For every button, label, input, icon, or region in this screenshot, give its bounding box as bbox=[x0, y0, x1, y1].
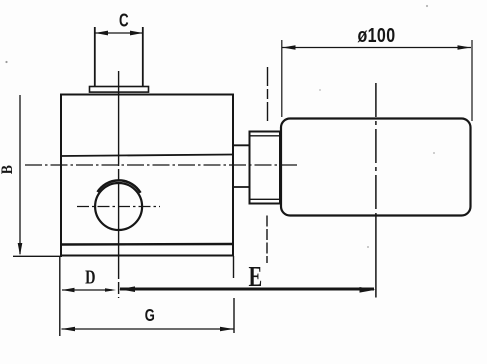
thread arc on hole bbox=[98, 180, 141, 192]
flange block bbox=[250, 132, 281, 204]
boss base plate bbox=[90, 87, 149, 93]
connector neck bbox=[233, 145, 250, 187]
hole vertical centerline bbox=[118, 71, 120, 298]
dimension dia100 line bbox=[282, 47, 471, 49]
dimension D line bbox=[62, 289, 112, 291]
main horizontal centerline bbox=[25, 164, 298, 166]
svg-text:G: G bbox=[145, 306, 155, 326]
svg-text:C: C bbox=[119, 10, 129, 31]
hole horizontal centerline bbox=[77, 206, 160, 208]
face extension line upper bbox=[267, 67, 269, 121]
face extension line lower bbox=[266, 216, 268, 264]
body upper internal line bbox=[61, 155, 233, 157]
cylinder vertical centerline bbox=[375, 83, 377, 215]
dia100 extension lines bbox=[281, 40, 283, 117]
svg-text:ø100: ø100 bbox=[357, 24, 395, 46]
B bottom extension line bbox=[13, 255, 62, 257]
dimension B line bbox=[19, 95, 21, 254]
coil cylinder bbox=[281, 119, 471, 216]
G left extension line bbox=[59, 257, 61, 337]
svg-text:E: E bbox=[249, 262, 263, 293]
G right extension line bbox=[233, 256, 235, 278]
svg-text:B: B bbox=[0, 165, 16, 174]
dimension E line bbox=[120, 288, 374, 291]
mounting hole circle bbox=[95, 183, 142, 230]
dimension G line bbox=[62, 328, 234, 330]
svg-text:D: D bbox=[85, 265, 95, 288]
main valve body bbox=[61, 95, 233, 256]
scan specks bbox=[5, 61, 7, 63]
dimension C line bbox=[96, 32, 143, 34]
body base plate line bbox=[61, 243, 233, 246]
top boss sides / C extension lines bbox=[94, 27, 96, 87]
